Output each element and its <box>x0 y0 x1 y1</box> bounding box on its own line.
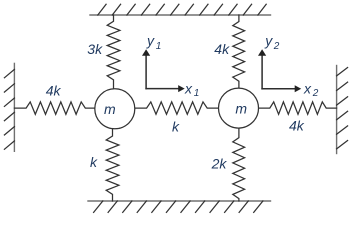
axes 1 lines <box>146 56 178 89</box>
mass m2 circle <box>219 88 259 128</box>
svg-text:1: 1 <box>194 88 200 99</box>
svg-text:m: m <box>235 100 247 116</box>
svg-text:x: x <box>184 81 193 97</box>
arrowhead y2 <box>258 49 266 56</box>
spring 4k right horizontal <box>259 102 337 114</box>
svg-text:m: m <box>104 101 116 117</box>
mass m1 circle <box>95 89 135 129</box>
svg-text:4k: 4k <box>214 41 230 57</box>
svg-text:2: 2 <box>273 41 280 52</box>
arrowhead x1 <box>178 85 185 92</box>
spring 2k vertical bottom-right <box>233 128 245 201</box>
spring k vertical bottom-left <box>106 129 119 201</box>
svg-text:k: k <box>172 118 180 134</box>
left wall <box>4 63 14 151</box>
arrowhead x2 <box>295 85 302 92</box>
arrowhead y1 <box>142 49 150 56</box>
svg-text:k: k <box>90 154 98 170</box>
svg-text:x: x <box>303 81 312 97</box>
bottom wall <box>88 201 271 212</box>
svg-text:y: y <box>146 33 155 49</box>
top wall <box>90 4 271 15</box>
svg-text:1: 1 <box>156 41 162 52</box>
spring 4k left horizontal <box>14 102 94 114</box>
svg-text:4k: 4k <box>289 118 305 134</box>
svg-text:3k: 3k <box>87 41 103 57</box>
svg-text:2k: 2k <box>211 156 228 172</box>
svg-text:y: y <box>264 33 273 49</box>
right wall <box>337 66 348 154</box>
spring 4k vertical top-right <box>233 15 245 88</box>
svg-text:4k: 4k <box>46 83 62 99</box>
spring k middle horizontal <box>135 102 218 114</box>
axes 2 lines <box>262 56 295 89</box>
spring 3k vertical top-left <box>107 15 120 88</box>
svg-text:2: 2 <box>312 88 319 99</box>
